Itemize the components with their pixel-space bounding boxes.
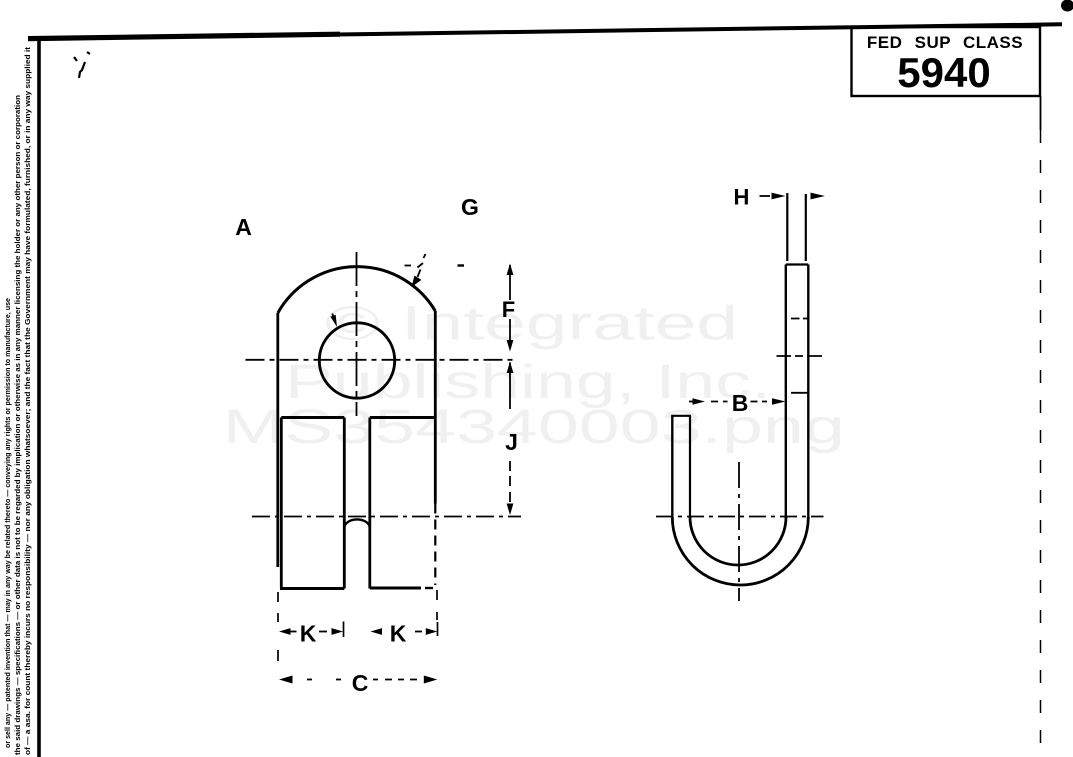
outline: right side hidden (dashed) xyxy=(434,504,436,586)
check mark top-left xyxy=(74,52,90,78)
slot end arc xyxy=(344,519,370,528)
horizontal centerline through hole xyxy=(246,359,515,361)
hook outer arc xyxy=(672,517,808,585)
svg-text:F: F xyxy=(502,297,515,322)
svg-text:K: K xyxy=(300,621,317,647)
left leg bottom xyxy=(280,587,344,590)
svg-text:G: G xyxy=(461,194,479,220)
hook vertical centerline xyxy=(738,462,740,601)
svg-text:A: A xyxy=(235,214,252,240)
hole leader arrow xyxy=(330,315,337,327)
slot centerline xyxy=(252,516,521,518)
small dash right of G leader xyxy=(458,264,465,266)
left border xyxy=(37,36,41,757)
outline: top arc xyxy=(278,267,436,313)
hook inner arc xyxy=(690,517,786,565)
step edge left xyxy=(281,416,344,419)
outline: right side solid xyxy=(434,311,437,504)
H right arrow xyxy=(811,193,826,200)
svg-text:MS354340003.png: MS354340003.png xyxy=(223,401,845,454)
step edge right xyxy=(370,416,434,419)
G leader arrow xyxy=(412,276,422,287)
slot right edge xyxy=(368,418,371,589)
H left arrow xyxy=(760,195,771,197)
svg-text:5940: 5940 xyxy=(897,49,990,96)
right leg bottom xyxy=(370,587,421,590)
svg-text:or sell any — patented inventi: or sell any — patented invention that — … xyxy=(5,298,12,748)
svg-text:© Integrated: © Integrated xyxy=(325,298,738,351)
svg-text:the said drawings — specificat: the said drawings — specifications — or … xyxy=(15,95,22,755)
band right edge xyxy=(807,265,809,518)
band tick 2 xyxy=(791,392,808,394)
band tick 1 xyxy=(791,318,810,320)
vertical centerline xyxy=(356,252,358,416)
B right arrow xyxy=(751,401,768,403)
band left edge xyxy=(785,265,787,518)
svg-text:K: K xyxy=(390,621,407,647)
B left arrow xyxy=(689,401,693,403)
band top cap xyxy=(786,263,809,265)
corner blob top-right xyxy=(1061,0,1073,12)
hook horizontal centerline xyxy=(656,516,824,518)
top border xyxy=(28,24,1062,39)
svg-text:J: J xyxy=(505,429,518,455)
svg-text:H: H xyxy=(734,185,750,210)
right border dashed xyxy=(1040,96,1042,130)
hook stub (tip) xyxy=(671,416,673,518)
left leg left edge xyxy=(280,418,283,589)
slot left edge xyxy=(343,418,346,589)
fed sup class box xyxy=(852,27,1041,96)
hole xyxy=(319,323,394,398)
svg-text:C: C xyxy=(352,670,369,696)
svg-text:B: B xyxy=(732,390,749,416)
svg-text:of — a asa. for count thereby: of — a asa. for count thereby incurs no … xyxy=(25,46,32,755)
outline: left side xyxy=(276,313,279,567)
strip top narrow xyxy=(786,193,788,261)
band centerline tick xyxy=(777,355,823,357)
